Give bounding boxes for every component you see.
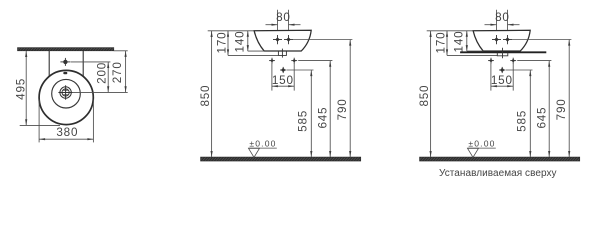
basin outer circle xyxy=(39,70,93,124)
svg-text:495: 495 xyxy=(14,78,27,100)
svg-text:380: 380 xyxy=(56,126,78,139)
faucet extension line xyxy=(71,61,111,63)
wall (hatched bar) xyxy=(18,48,114,51)
drain stub xyxy=(278,51,286,55)
drain extension line xyxy=(73,91,128,93)
countertop line xyxy=(460,51,546,53)
wall extension line xyxy=(114,50,128,52)
495 dim xyxy=(25,51,27,125)
svg-text:200: 200 xyxy=(96,62,109,84)
380 dim xyxy=(38,100,40,143)
svg-text:Устанавливаемая сверху: Устанавливаемая сверху xyxy=(439,168,557,179)
270 dim xyxy=(125,51,127,92)
faucet hole mark xyxy=(60,58,70,66)
200 dim xyxy=(107,62,109,92)
overflow hole xyxy=(63,72,67,74)
svg-text:270: 270 xyxy=(111,61,124,83)
basin inner circle xyxy=(52,79,81,108)
basin neck lines xyxy=(48,51,50,76)
drain xyxy=(58,85,72,99)
drain stub xyxy=(497,53,508,56)
